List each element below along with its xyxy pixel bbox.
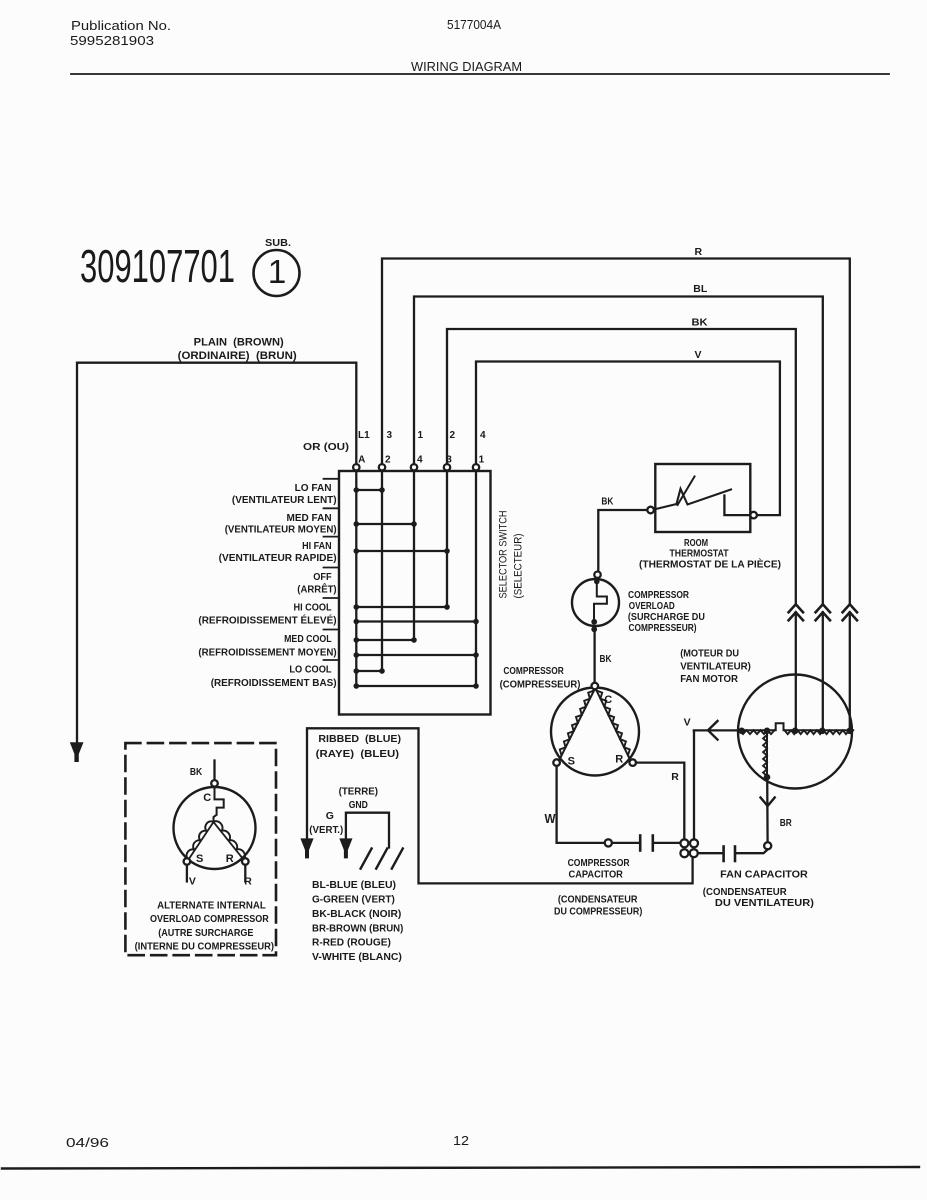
fan motor winding taps — [738, 728, 745, 735]
arrowhead solid (plain brown wire end) — [70, 742, 84, 762]
svg-text:S: S — [196, 853, 203, 865]
switch row: HI FAN contact — [356, 550, 447, 552]
svg-text:2: 2 — [385, 455, 391, 466]
svg-text:CAPACITOR: CAPACITOR — [569, 869, 624, 881]
svg-text:R: R — [671, 771, 679, 783]
label COMPRESSOR CAPACITOR — [554, 857, 642, 917]
fan motor circle — [738, 675, 852, 789]
svg-text:G-GREEN (VERT): G-GREEN (VERT) — [312, 894, 395, 906]
svg-text:BK-BLACK (NOIR): BK-BLACK (NOIR) — [312, 908, 401, 920]
wire BK thermostat to overload — [598, 510, 647, 571]
switch column bus 2 — [381, 471, 383, 671]
svg-text:BL: BL — [693, 283, 708, 295]
svg-text:2: 2 — [450, 430, 456, 441]
svg-text:WIRING DIAGRAM: WIRING DIAGRAM — [411, 59, 522, 74]
alternate compressor circle — [174, 787, 256, 869]
svg-text:BK: BK — [692, 317, 708, 329]
alternate compressor internal overload zigzag — [214, 787, 224, 822]
fan motor main winding — [739, 723, 853, 730]
footer rule — [2, 1167, 919, 1169]
terminal pin labels top row L1 3 1 2 4 — [303, 430, 486, 466]
compressor start winding (C to S) — [560, 691, 595, 760]
alternate compressor dashed enclosure — [125, 743, 276, 955]
svg-text:LO FAN: LO FAN — [295, 482, 332, 494]
svg-text:(REFROIDISSEMENT ÉLEVÉ): (REFROIDISSEMENT ÉLEVÉ) — [198, 614, 336, 627]
svg-text:(RAYE) (BLEU): (RAYE) (BLEU) — [316, 748, 399, 760]
compressor motor circle — [551, 688, 639, 776]
svg-text:12: 12 — [453, 1133, 469, 1148]
svg-text:MED COOL: MED COOL — [284, 633, 332, 645]
svg-text:BK: BK — [601, 496, 613, 508]
switch position labels — [198, 482, 336, 689]
svg-text:BK: BK — [190, 766, 203, 778]
svg-text:GND: GND — [349, 799, 369, 811]
svg-text:HI FAN: HI FAN — [302, 540, 332, 552]
alternate compressor lead stub — [213, 761, 215, 781]
svg-text:V: V — [189, 876, 196, 888]
svg-text:RIBBED (BLUE): RIBBED (BLUE) — [318, 733, 401, 745]
svg-text:(COMPRESSEUR): (COMPRESSEUR) — [500, 679, 581, 691]
svg-text:R: R — [615, 754, 623, 766]
svg-text:G: G — [326, 810, 334, 822]
overload top terminal — [594, 572, 600, 578]
svg-text:(AUTRE SURCHARGE: (AUTRE SURCHARGE — [158, 927, 253, 939]
svg-text:4: 4 — [417, 455, 423, 466]
switch row: MED COOL fan contact — [356, 639, 414, 641]
arrowhead into fan motor — [708, 721, 718, 740]
switch row: MED COOL compressor contact — [356, 654, 476, 656]
label (TERRE) GND — [309, 785, 378, 836]
svg-text:3: 3 — [387, 430, 393, 441]
wire BK overload to compressor — [593, 631, 595, 683]
switch row: LO COOL fan contact — [356, 670, 382, 672]
wire R — [382, 259, 850, 605]
svg-text:L1: L1 — [358, 430, 370, 441]
svg-text:C: C — [203, 792, 211, 804]
arrowhead on BR wire — [761, 798, 775, 807]
svg-text:(CONDENSATEUR: (CONDENSATEUR — [558, 894, 638, 906]
svg-text:(THERMOSTAT DE LA PIÈCE): (THERMOSTAT DE LA PIÈCE) — [639, 558, 781, 571]
wire G green ground branch — [346, 813, 389, 848]
alternate compressor S lead — [186, 865, 188, 882]
wire BR: fan motor to capacitor — [766, 777, 769, 842]
svg-text:COMPRESSOR: COMPRESSOR — [568, 857, 630, 869]
alternate compressor terminal R — [242, 858, 249, 865]
label FAN CAPACITOR (CONDENSATEUR DU VENTILATEUR) — [703, 869, 814, 910]
svg-text:MED FAN: MED FAN — [287, 512, 332, 524]
compressor terminal R — [629, 759, 636, 766]
wire V — [476, 362, 780, 516]
svg-text:DU VENTILATEUR): DU VENTILATEUR) — [715, 897, 814, 909]
svg-text:BL-BLUE (BLEU): BL-BLUE (BLEU) — [312, 879, 396, 891]
compressor terminal C — [592, 683, 599, 690]
label (MOTEUR DU VENTILATEUR) FAN MOTOR — [680, 648, 751, 686]
svg-text:SELECTOR SWITCH: SELECTOR SWITCH — [498, 510, 510, 598]
svg-text:S: S — [568, 756, 575, 768]
connector cluster (4-way plug) — [680, 839, 698, 857]
selector switch terminals A 2 4 3 1 — [353, 464, 479, 470]
fan motor auxiliary winding — [766, 733, 768, 777]
inline connector chevrons on wire R — [843, 604, 857, 620]
switch row: MED FAN contact — [356, 523, 414, 525]
label ROOM THERMOSTAT — [639, 537, 781, 571]
svg-text:(MOTEUR DU: (MOTEUR DU — [680, 648, 739, 660]
label SELECTOR SWITCH (SELECTEUR) vertical — [498, 510, 525, 598]
alternate compressor terminal C — [211, 780, 218, 787]
switch row: HI COOL fan contact — [356, 606, 447, 608]
svg-text:COMPRESSEUR): COMPRESSEUR) — [629, 622, 697, 634]
fan capacitor terminal — [764, 842, 771, 849]
svg-text:Publication No.: Publication No. — [71, 18, 171, 33]
alternate compressor winding C-R — [214, 822, 244, 860]
compressor overload — [572, 579, 619, 626]
svg-text:W: W — [545, 812, 556, 826]
compressor capacitor plates — [612, 842, 640, 844]
svg-text:A: A — [358, 455, 365, 466]
label COMPRESSOR (COMPRESSEUR) — [500, 665, 581, 691]
svg-text:OR (OU): OR (OU) — [303, 441, 349, 453]
svg-text:SUB.: SUB. — [265, 238, 291, 249]
label PLAIN (BROWN) — [178, 337, 297, 363]
compressor capacitor terminal — [605, 839, 612, 846]
label RIBBED (BLUE) / (RAYE) (BLEU) — [316, 733, 401, 760]
arrowhead solid (green wire end) — [339, 838, 352, 858]
switch row: HI COOL compressor contact — [356, 620, 476, 622]
wire R: compressor R to connector — [636, 763, 684, 838]
alternate compressor winding C-S — [189, 822, 214, 860]
inline connector chevrons on wire BK — [789, 604, 803, 620]
ground symbol — [361, 849, 403, 869]
switch column bus 4 — [413, 471, 415, 640]
room thermostat box — [655, 464, 750, 532]
svg-text:R-RED (ROUGE): R-RED (ROUGE) — [312, 937, 391, 949]
svg-text:1: 1 — [418, 430, 424, 441]
svg-text:(REFROIDISSEMENT MOYEN): (REFROIDISSEMENT MOYEN) — [198, 647, 336, 659]
alternate compressor labels C S R V R — [135, 792, 274, 953]
svg-text:(ORDINAIRE) (BRUN): (ORDINAIRE) (BRUN) — [178, 350, 297, 362]
inline connector chevrons on wire BL — [816, 604, 830, 620]
svg-text:3: 3 — [446, 455, 452, 466]
compressor terminal labels C S R — [568, 694, 624, 768]
svg-text:FAN CAPACITOR: FAN CAPACITOR — [720, 869, 808, 881]
svg-text:(TERRE): (TERRE) — [339, 785, 378, 797]
svg-text:V: V — [684, 717, 691, 729]
svg-text:V-WHITE (BLANC): V-WHITE (BLANC) — [312, 951, 402, 963]
svg-text:1: 1 — [479, 455, 485, 466]
label COMPRESSOR OVERLOAD (SURCHARGE DU COMPRESSEUR) — [628, 589, 705, 634]
svg-text:5995281903: 5995281903 — [70, 33, 154, 48]
title rule — [71, 73, 889, 75]
compressor terminal S — [553, 759, 560, 766]
svg-text:HI COOL: HI COOL — [294, 602, 333, 614]
svg-text:DU COMPRESSEUR): DU COMPRESSEUR) — [554, 905, 642, 917]
wire W: compressor S to capacitor — [557, 766, 605, 843]
svg-text:04/96: 04/96 — [66, 1135, 109, 1150]
svg-text:R: R — [226, 853, 234, 865]
wire V: connector to fan motor — [694, 730, 740, 839]
svg-text:BR-BROWN (BRUN): BR-BROWN (BRUN) — [312, 922, 403, 934]
alternate compressor R lead — [244, 865, 246, 882]
svg-text:(REFROIDISSEMENT BAS): (REFROIDISSEMENT BAS) — [211, 677, 337, 689]
wire BL — [414, 297, 823, 605]
thermostat switch blade — [654, 489, 731, 510]
svg-text:BR: BR — [780, 817, 792, 829]
switch row: LO COOL compressor contact — [356, 685, 476, 687]
svg-text:(SELECTEUR): (SELECTEUR) — [513, 534, 525, 599]
thermostat fixed contact post — [724, 496, 750, 516]
svg-text:4: 4 — [480, 430, 486, 441]
svg-text:309107701: 309107701 — [80, 240, 235, 292]
svg-text:THERMOSTAT: THERMOSTAT — [670, 548, 729, 560]
wire colour legend — [312, 879, 403, 963]
svg-text:5177004A: 5177004A — [447, 17, 501, 32]
svg-text:R: R — [695, 246, 703, 258]
alternate compressor terminal S — [184, 858, 191, 865]
svg-text:FAN MOTOR: FAN MOTOR — [680, 673, 738, 685]
svg-text:R: R — [244, 876, 252, 888]
selector switch box — [339, 471, 491, 715]
svg-text:C: C — [604, 694, 612, 706]
thermostat left terminal — [647, 507, 654, 514]
wire BK — [447, 329, 796, 604]
svg-text:BK: BK — [600, 653, 612, 665]
svg-text:1: 1 — [268, 253, 286, 290]
svg-text:V: V — [695, 349, 702, 361]
svg-text:(VENTILATEUR LENT): (VENTILATEUR LENT) — [232, 494, 337, 506]
switch column bus 3 — [446, 471, 448, 607]
thermostat right terminal — [750, 512, 757, 519]
arrowhead solid (ribbed wire end) — [300, 838, 313, 858]
svg-text:(INTERNE DU COMPRESSEUR): (INTERNE DU COMPRESSEUR) — [135, 941, 274, 953]
svg-text:(ARRÊT): (ARRÊT) — [297, 583, 336, 596]
svg-text:VENTILATEUR): VENTILATEUR) — [680, 661, 751, 673]
switch position label ticks — [324, 478, 340, 480]
svg-text:PLAIN (BROWN): PLAIN (BROWN) — [194, 337, 284, 349]
svg-text:LO COOL: LO COOL — [289, 664, 332, 676]
switch column bus 1 — [475, 471, 477, 686]
thermostat actuator stroke — [678, 477, 695, 506]
switch row: LO FAN contact — [356, 489, 382, 491]
wire RIBBED (BLUE): switch to connector — [307, 728, 693, 883]
svg-text:COMPRESSOR: COMPRESSOR — [503, 665, 564, 677]
svg-text:(VERT.): (VERT.) — [309, 824, 343, 836]
svg-text:OFF: OFF — [313, 571, 332, 583]
sub revision circle 1 — [254, 250, 300, 296]
svg-text:(VENTILATEUR RAPIDE): (VENTILATEUR RAPIDE) — [219, 552, 337, 564]
compressor run winding (C to R) — [597, 691, 631, 760]
svg-text:ALTERNATE INTERNAL: ALTERNATE INTERNAL — [157, 900, 266, 912]
svg-text:(VENTILATEUR MOYEN): (VENTILATEUR MOYEN) — [225, 524, 337, 536]
svg-text:OVERLOAD COMPRESSOR: OVERLOAD COMPRESSOR — [150, 913, 269, 925]
wire plain brown: L1 run to lower-left arrow — [77, 363, 356, 742]
switch column bus A — [355, 471, 357, 686]
fan capacitor plates — [698, 852, 723, 854]
